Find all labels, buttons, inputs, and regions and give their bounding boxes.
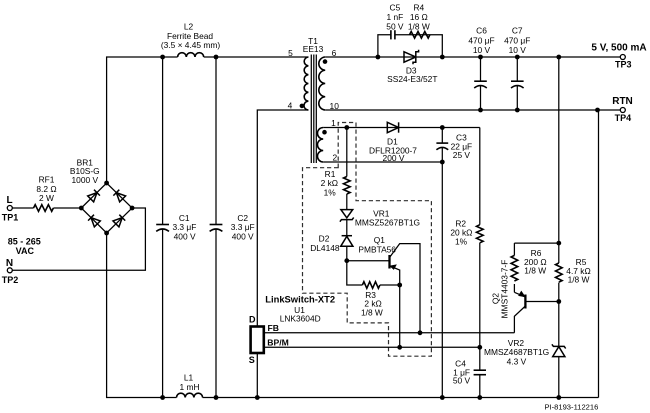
node N terminal TP2 (2, 258, 19, 285)
svg-text:PMBTA56: PMBTA56 (358, 244, 396, 254)
svg-text:1%: 1% (455, 236, 468, 246)
transformer T1 (288, 36, 340, 163)
ferrite bead L2 (161, 22, 221, 57)
svg-text:1/8 W: 1/8 W (361, 307, 383, 317)
node 5V output TP3 (556, 43, 646, 70)
dashed outline feedback group (303, 123, 432, 357)
wire secondary output rail (325, 56, 620, 58)
svg-text:2 W: 2 W (39, 193, 54, 203)
svg-text:TP1: TP1 (2, 213, 19, 223)
svg-text:FB: FB (268, 323, 279, 333)
node L terminal TP1 (2, 195, 19, 223)
svg-text:1 nF: 1 nF (387, 12, 404, 22)
inductor L1 (177, 373, 203, 398)
capacitor C4 (453, 347, 486, 400)
svg-text:BP/M: BP/M (267, 338, 288, 348)
resistor RF1 (34, 175, 57, 212)
wire Q1 emitter down to BP/M (399, 285, 401, 347)
svg-text:1/8 W: 1/8 W (568, 274, 590, 284)
svg-text:1000 V: 1000 V (72, 175, 99, 185)
primary winding pins 5-4 (304, 57, 308, 110)
svg-text:MMSZ4687BT1G: MMSZ4687BT1G (484, 347, 549, 357)
svg-text:1: 1 (331, 118, 336, 128)
snubber loop wires (378, 35, 442, 57)
capacitor C7 (504, 26, 530, 113)
svg-text:4: 4 (288, 101, 293, 111)
wire RTN rail (325, 109, 620, 111)
transistor Q1 (358, 235, 420, 333)
wire right edge RTN to ground rail (598, 110, 600, 398)
svg-text:RTN: RTN (612, 96, 633, 107)
svg-text:1%: 1% (324, 188, 337, 198)
wire RF1 to bridge (53, 207, 81, 209)
svg-text:VAC: VAC (16, 246, 35, 256)
wire L input (12, 207, 33, 209)
wire ground rail (203, 397, 599, 399)
wire base node to R3 corner (347, 261, 363, 285)
svg-text:1 mH: 1 mH (179, 382, 199, 392)
svg-text:D2: D2 (319, 233, 330, 243)
wire pin4 to U1 drain (257, 110, 308, 327)
svg-text:PI-8193-112216: PI-8193-112216 (544, 403, 598, 412)
svg-text:50 V: 50 V (386, 22, 404, 32)
node Q1 base junction (344, 258, 349, 263)
svg-text:MMST4403-7-F: MMST4403-7-F (500, 260, 510, 319)
resistor R6 (511, 243, 546, 292)
capacitor C6 (468, 26, 494, 113)
svg-text:RF1: RF1 (39, 175, 55, 185)
svg-text:MMSZ5267BT1G: MMSZ5267BT1G (355, 218, 420, 228)
svg-text:50 V: 50 V (453, 376, 471, 386)
wire bridge bottom to ground rail (107, 233, 177, 398)
diode D3 schottky (387, 50, 437, 84)
svg-text:R4: R4 (413, 3, 424, 13)
svg-text:16 Ω: 16 Ω (410, 12, 428, 22)
svg-text:200 V: 200 V (383, 153, 405, 163)
wire HV rail to transformer pin5 (204, 56, 309, 58)
svg-text:10 V: 10 V (509, 45, 527, 55)
svg-text:C7: C7 (512, 26, 523, 36)
wire R6 top line (514, 242, 558, 244)
svg-text:D: D (249, 314, 256, 324)
svg-text:S: S (249, 355, 255, 365)
bridge rectifier BR1 (70, 157, 135, 235)
wire BP/M line (264, 346, 480, 348)
svg-text:5 V, 500 mA: 5 V, 500 mA (591, 43, 646, 54)
svg-text:4.3 V: 4.3 V (507, 357, 527, 367)
resistor R3 (361, 282, 402, 318)
wire pin1 feed down to R2 (479, 128, 481, 225)
capacitor C1 (156, 55, 196, 400)
bias winding pins 1-2 (317, 128, 323, 163)
svg-text:400 V: 400 V (232, 232, 254, 242)
svg-text:L: L (6, 195, 12, 206)
wire N line to bridge right vertex (12, 208, 145, 270)
wire bias pin2 line (323, 161, 442, 163)
svg-text:400 V: 400 V (174, 232, 196, 242)
svg-text:(3.5 × 4.45 mm): (3.5 × 4.45 mm) (161, 40, 221, 50)
svg-text:1/8 W: 1/8 W (408, 22, 430, 32)
transistor Q2 (491, 260, 562, 333)
wire FB line (264, 332, 515, 334)
svg-text:85 - 265: 85 - 265 (8, 237, 41, 247)
resistor R4 (408, 3, 430, 39)
svg-text:C5: C5 (390, 3, 401, 13)
svg-text:LinkSwitch-XT2: LinkSwitch-XT2 (265, 293, 335, 304)
resistor R2 (450, 218, 483, 347)
zener VR2 (484, 302, 566, 400)
capacitor C5 (386, 3, 404, 40)
capacitor C2 (210, 55, 255, 400)
svg-text:EE13: EE13 (303, 44, 324, 54)
wire bridge top to HV rail (107, 57, 178, 183)
diode D2 (310, 233, 353, 260)
resistor R1 (321, 125, 351, 209)
node snubber right junction (440, 55, 445, 60)
resistor R5 (556, 243, 591, 301)
svg-text:2: 2 (332, 153, 337, 163)
node RTN terminal TP4 (595, 96, 633, 123)
svg-text:LNK3604D: LNK3604D (280, 313, 321, 323)
svg-text:25 V: 25 V (453, 150, 471, 160)
node snubber left junction (376, 55, 381, 60)
IC U1 LinkSwitch-XT2 (249, 293, 335, 364)
label 85-265 VAC (8, 237, 41, 257)
svg-text:5: 5 (288, 48, 293, 58)
diode D1 (369, 122, 417, 163)
svg-text:C6: C6 (476, 26, 487, 36)
secondary winding pins 6-10 (319, 57, 325, 110)
wire bias pin1 line (323, 127, 480, 129)
core (310, 55, 312, 164)
svg-text:TP3: TP3 (615, 60, 632, 70)
svg-text:TP2: TP2 (2, 275, 19, 285)
svg-text:2 kΩ: 2 kΩ (321, 178, 338, 188)
svg-text:1/8 W: 1/8 W (524, 266, 546, 276)
zener VR1 (340, 208, 420, 235)
svg-text:10 V: 10 V (473, 45, 491, 55)
svg-text:DL4148: DL4148 (310, 243, 340, 253)
svg-text:TP4: TP4 (615, 113, 632, 123)
wire 5V branch to R6/R5 (558, 57, 560, 243)
wire U1 source to ground (256, 353, 258, 398)
svg-text:N: N (6, 258, 13, 269)
capacitor C3 (436, 125, 472, 400)
wire base node to Q1 (347, 260, 390, 262)
svg-text:SS24-E3/52T: SS24-E3/52T (387, 74, 437, 84)
